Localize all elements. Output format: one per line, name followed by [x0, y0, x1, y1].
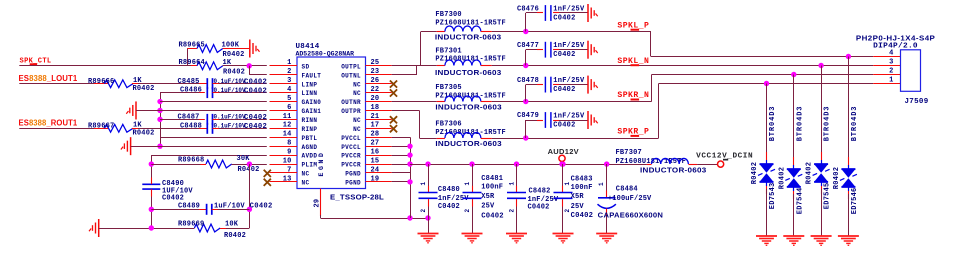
svg-text:NC: NC — [302, 171, 310, 178]
svg-text:BTR04D3: BTR04D3 — [851, 106, 859, 142]
svg-text:8: 8 — [287, 140, 291, 148]
svg-text:OUTNL: OUTNL — [341, 72, 361, 79]
svg-text:PLIM: PLIM — [302, 162, 318, 169]
svg-text:R0402: R0402 — [224, 232, 246, 240]
svg-text:C8477: C8477 — [517, 42, 539, 50]
svg-text:OUTPR: OUTPR — [341, 108, 361, 115]
svg-text:0.1uF/10V: 0.1uF/10V — [214, 78, 246, 86]
svg-text:27: 27 — [371, 140, 380, 148]
svg-text:C8480: C8480 — [438, 186, 460, 194]
svg-text:1K: 1K — [133, 122, 142, 130]
svg-text:ED7545: ED7545 — [824, 182, 832, 209]
svg-text:24: 24 — [371, 166, 380, 174]
svg-text:25V: 25V — [481, 202, 495, 210]
svg-text:19: 19 — [371, 175, 380, 183]
svg-text:C0402: C0402 — [244, 123, 267, 131]
svg-text:INDUCTOR-0603: INDUCTOR-0603 — [435, 139, 502, 148]
svg-text:R0402: R0402 — [833, 167, 841, 190]
svg-text:C0402: C0402 — [244, 87, 267, 95]
svg-text:R0402: R0402 — [238, 166, 260, 174]
svg-text:1nF/25V: 1nF/25V — [553, 77, 585, 85]
svg-text:FB7306: FB7306 — [435, 121, 461, 129]
svg-text:6: 6 — [287, 104, 291, 112]
svg-text:C0402: C0402 — [553, 51, 575, 59]
svg-text:C0402: C0402 — [553, 14, 575, 22]
svg-text:11: 11 — [283, 113, 292, 121]
svg-text:SD: SD — [302, 63, 310, 70]
svg-text:R89665: R89665 — [179, 41, 205, 49]
svg-text:BTR04D3: BTR04D3 — [796, 106, 804, 142]
svg-text:+100uF/25V: +100uF/25V — [608, 195, 652, 203]
svg-text:J7509: J7509 — [905, 98, 929, 106]
svg-text:AD52580-QG28NAR: AD52580-QG28NAR — [296, 51, 355, 58]
svg-text:PH2P0-HJ-1X4-S4P: PH2P0-HJ-1X4-S4P — [856, 33, 935, 42]
svg-text:17: 17 — [371, 122, 380, 130]
svg-text:INDUCTOR-0603: INDUCTOR-0603 — [435, 68, 502, 77]
svg-text:ES8388_ROUT1: ES8388_ROUT1 — [19, 119, 78, 128]
svg-text:15: 15 — [371, 157, 380, 165]
svg-text:4: 4 — [889, 50, 893, 58]
svg-text:OUTNR: OUTNR — [341, 99, 361, 106]
svg-text:C0402: C0402 — [162, 194, 184, 202]
svg-text:1: 1 — [464, 182, 471, 186]
svg-text:C0402: C0402 — [244, 78, 267, 86]
svg-text:CAPAE660X600N: CAPAE660X600N — [598, 211, 664, 220]
svg-text:INDUCTOR-0603: INDUCTOR-0603 — [435, 33, 502, 42]
svg-text:NC: NC — [302, 179, 310, 186]
svg-text:R0402: R0402 — [223, 69, 245, 77]
svg-text:LINP: LINP — [302, 81, 318, 88]
svg-text:100nF: 100nF — [571, 184, 593, 192]
svg-text:PVCCR: PVCCR — [341, 153, 361, 160]
svg-text:FAULT: FAULT — [302, 72, 322, 79]
svg-text:C0402: C0402 — [481, 212, 504, 220]
svg-text:C8482: C8482 — [529, 188, 551, 196]
svg-text:C0402: C0402 — [244, 114, 267, 122]
svg-text:C8483: C8483 — [571, 176, 593, 184]
svg-text:C8487: C8487 — [178, 114, 200, 122]
svg-text:R89664: R89664 — [179, 59, 205, 67]
svg-text:R0402: R0402 — [223, 51, 245, 59]
svg-text:12: 12 — [283, 122, 292, 130]
svg-text:OUTPL: OUTPL — [341, 63, 361, 70]
svg-text:PVCCL: PVCCL — [341, 135, 361, 142]
svg-text:21: 21 — [371, 113, 380, 121]
svg-text:14: 14 — [283, 131, 292, 139]
svg-text:C0402: C0402 — [571, 212, 594, 220]
svg-text:9: 9 — [287, 149, 291, 157]
svg-text:BTR04D3: BTR04D3 — [769, 106, 777, 142]
svg-text:X5R: X5R — [571, 193, 585, 201]
svg-text:PGND: PGND — [345, 179, 361, 186]
svg-text:R0402: R0402 — [133, 85, 155, 93]
svg-text:100nF: 100nF — [481, 183, 503, 191]
svg-text:2: 2 — [420, 209, 427, 213]
svg-text:C8479: C8479 — [517, 112, 539, 120]
svg-text:E_TSSOP-28L: E_TSSOP-28L — [330, 192, 384, 201]
svg-text:FB7307: FB7307 — [616, 149, 642, 157]
svg-text:NC: NC — [353, 81, 361, 88]
svg-text:16: 16 — [371, 149, 380, 157]
svg-text:DIP4P/2.0: DIP4P/2.0 — [873, 43, 918, 51]
svg-text:ED7544: ED7544 — [796, 187, 804, 214]
svg-text:3: 3 — [889, 59, 893, 67]
svg-text:C0402: C0402 — [250, 203, 273, 211]
svg-text:NC: NC — [353, 117, 361, 124]
svg-text:C8478: C8478 — [517, 77, 539, 85]
svg-text:5: 5 — [287, 95, 291, 103]
svg-text:2: 2 — [564, 209, 571, 213]
svg-text:22: 22 — [371, 86, 380, 94]
svg-text:1K: 1K — [223, 59, 232, 67]
svg-text:C8486: C8486 — [180, 87, 202, 95]
svg-text:C8485: C8485 — [178, 78, 200, 86]
svg-text:1: 1 — [564, 182, 571, 186]
svg-text:1: 1 — [598, 182, 605, 186]
svg-text:RINP: RINP — [302, 126, 318, 133]
svg-text:13: 13 — [283, 175, 292, 183]
svg-text:ES8388_LOUT1: ES8388_LOUT1 — [19, 74, 78, 83]
svg-text:R0402: R0402 — [806, 162, 814, 185]
svg-text:0.1uF/10V: 0.1uF/10V — [214, 87, 246, 95]
svg-text:R89668: R89668 — [178, 157, 204, 165]
svg-text:23: 23 — [371, 68, 380, 76]
svg-text:X5R: X5R — [481, 193, 495, 201]
svg-text:25: 25 — [371, 59, 380, 67]
svg-text:RINN: RINN — [302, 117, 318, 124]
svg-text:NC: NC — [353, 90, 361, 97]
svg-text:R0402: R0402 — [133, 129, 155, 137]
svg-text:C8488: C8488 — [180, 122, 202, 130]
svg-text:BTR04D3: BTR04D3 — [824, 106, 832, 142]
svg-text:1nF/25V: 1nF/25V — [553, 42, 585, 50]
svg-text:FB7301: FB7301 — [435, 47, 461, 55]
svg-text:PGND: PGND — [345, 171, 361, 178]
svg-text:2: 2 — [464, 209, 471, 213]
svg-text:PVCCL: PVCCL — [341, 144, 361, 151]
svg-text:3: 3 — [287, 77, 291, 85]
svg-text:GAIN0: GAIN0 — [302, 99, 322, 106]
svg-text:R89669: R89669 — [178, 221, 204, 229]
svg-text:FB7305: FB7305 — [435, 84, 461, 92]
svg-text:0.1uF/10V: 0.1uF/10V — [214, 123, 246, 131]
svg-text:FB7300: FB7300 — [435, 11, 461, 19]
svg-text:C8476: C8476 — [517, 5, 539, 13]
svg-text:1: 1 — [287, 59, 291, 67]
svg-text:7: 7 — [287, 166, 291, 174]
svg-text:INDUCTOR-0603: INDUCTOR-0603 — [435, 103, 502, 112]
svg-text:C0402: C0402 — [438, 203, 460, 211]
svg-text:R0402: R0402 — [751, 162, 759, 185]
svg-text:C8489: C8489 — [178, 203, 200, 211]
svg-text:C8481: C8481 — [481, 175, 503, 183]
svg-text:C8484: C8484 — [616, 186, 638, 194]
svg-text:28: 28 — [371, 131, 380, 139]
svg-text:25V: 25V — [571, 203, 585, 211]
svg-text:GAIN1: GAIN1 — [302, 108, 322, 115]
svg-text:10K: 10K — [225, 221, 239, 229]
svg-text:10: 10 — [283, 157, 292, 165]
svg-text:1K: 1K — [133, 77, 142, 85]
svg-text:2: 2 — [287, 68, 291, 76]
svg-text:1: 1 — [508, 182, 515, 186]
svg-text:18: 18 — [371, 104, 380, 112]
svg-text:1nF/25V: 1nF/25V — [553, 5, 585, 13]
svg-text:R89667: R89667 — [88, 122, 114, 130]
svg-text:2: 2 — [889, 68, 893, 76]
svg-text:1uF/10V: 1uF/10V — [214, 203, 245, 211]
svg-text:PBTL: PBTL — [302, 135, 318, 142]
svg-text:C0402: C0402 — [553, 86, 575, 94]
svg-text:AVDD: AVDD — [302, 153, 318, 160]
svg-text:0.1uF/10V: 0.1uF/10V — [214, 114, 246, 122]
svg-text:EGND: EGND — [318, 150, 325, 176]
svg-text:2: 2 — [508, 209, 515, 213]
svg-text:C0402: C0402 — [528, 203, 550, 211]
svg-text:AGND: AGND — [302, 144, 318, 151]
svg-text:1: 1 — [889, 77, 893, 85]
svg-text:1nF/25V: 1nF/25V — [553, 112, 585, 120]
svg-text:C0402: C0402 — [553, 121, 575, 129]
svg-text:4: 4 — [287, 86, 291, 94]
svg-text:26: 26 — [371, 77, 380, 85]
svg-text:ED7546: ED7546 — [851, 187, 859, 214]
svg-text:PZ1608U181-1R5TF: PZ1608U181-1R5TF — [435, 19, 506, 27]
svg-text:R89666: R89666 — [88, 78, 114, 86]
svg-text:LINN: LINN — [302, 90, 318, 97]
svg-text:PVCCR: PVCCR — [341, 162, 361, 169]
svg-text:20: 20 — [371, 95, 380, 103]
svg-text:NC: NC — [353, 126, 361, 133]
svg-text:INDUCTOR-0603: INDUCTOR-0603 — [640, 166, 707, 175]
svg-text:1: 1 — [420, 182, 427, 186]
svg-text:R0402: R0402 — [778, 167, 786, 190]
svg-text:ED7543: ED7543 — [769, 182, 777, 209]
svg-text:100K: 100K — [222, 41, 240, 49]
